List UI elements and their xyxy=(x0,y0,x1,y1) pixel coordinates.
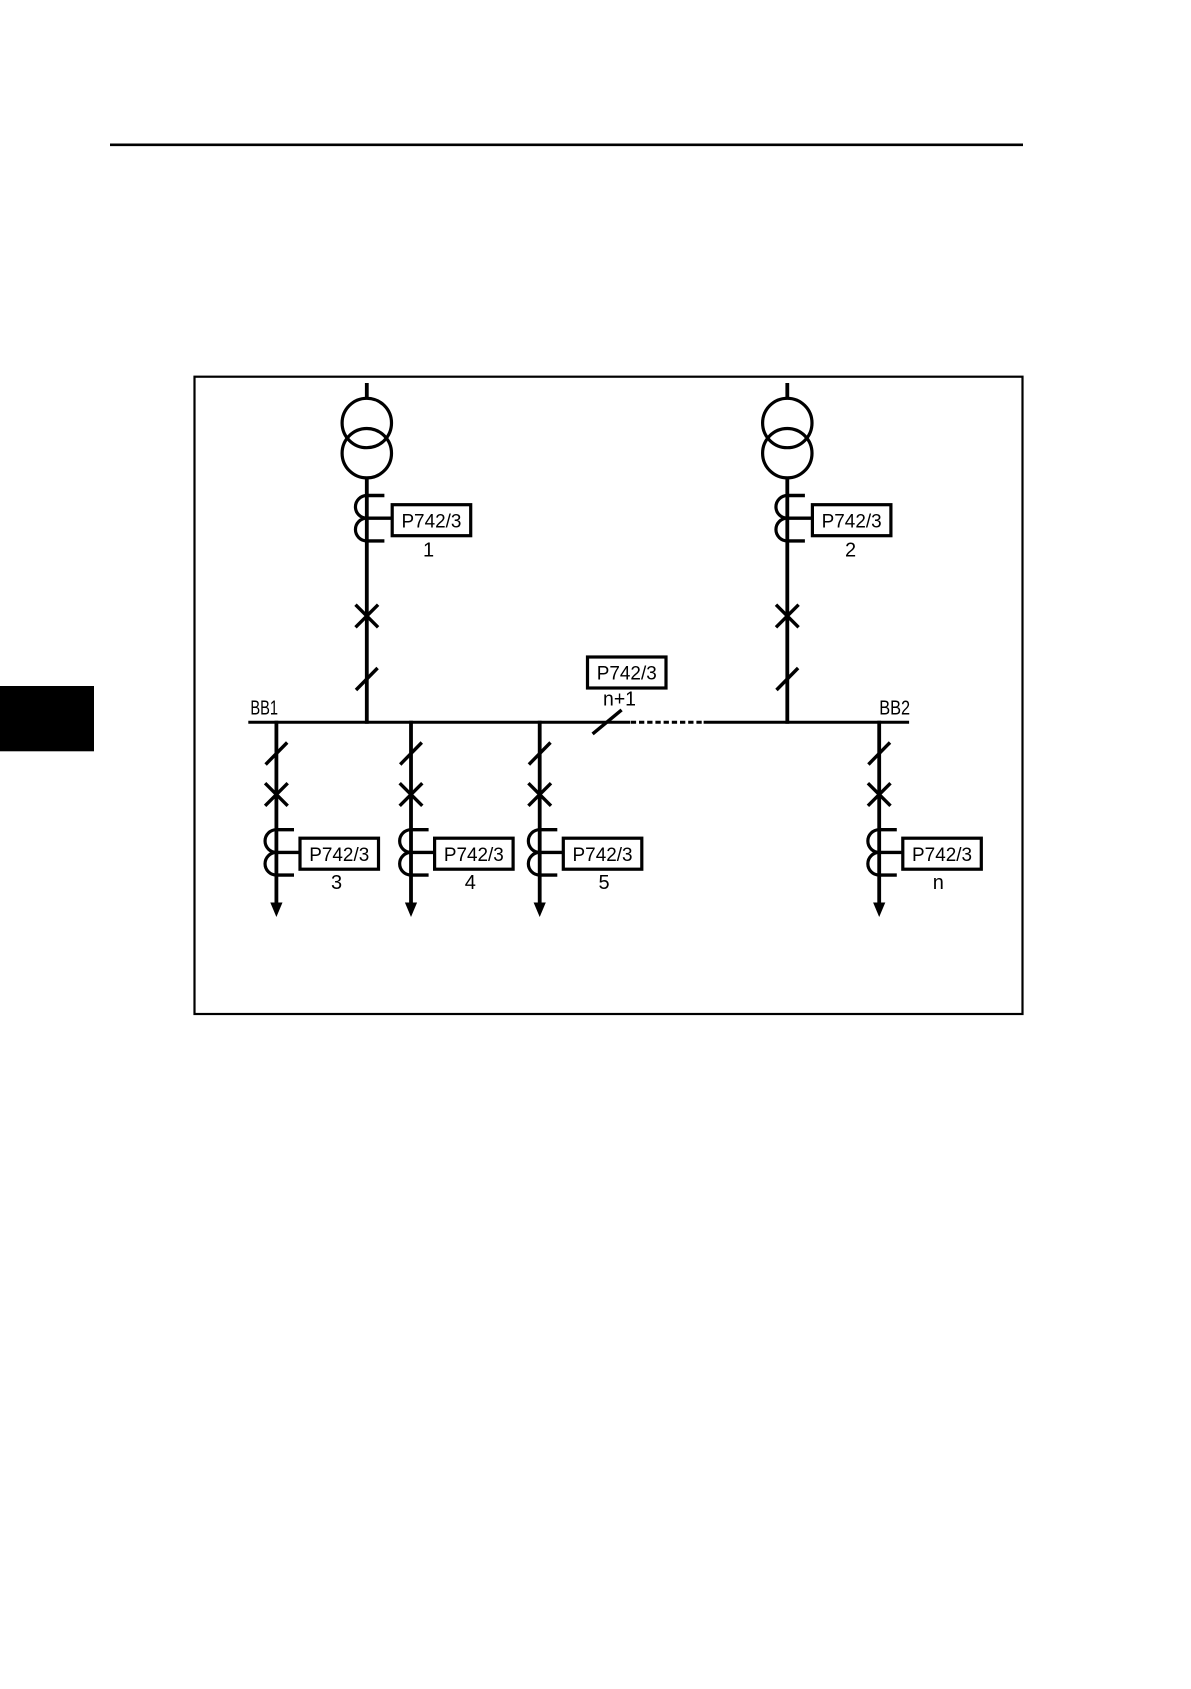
disconnector feeder 5 (slash) xyxy=(529,743,551,765)
CT feeder 3 top tick xyxy=(276,828,294,831)
disconnector feeder 4 (slash) xyxy=(400,743,422,765)
circuit breaker incomer 1 (X) xyxy=(356,605,379,628)
feeder 3 wire xyxy=(274,721,278,905)
circuit breaker feeder n (X) xyxy=(868,783,891,806)
incomer 2 supply stub wire xyxy=(785,383,789,400)
CT incomer 1 bottom tick xyxy=(367,539,385,542)
CT incomer 2 top tick xyxy=(787,494,805,497)
disconnector bus section (slash) xyxy=(593,710,622,734)
feeder 4 wire xyxy=(409,721,413,905)
svg-text:BB2: BB2 xyxy=(879,698,910,720)
svg-text:n: n xyxy=(933,872,944,894)
CT incomer 2 arcs xyxy=(776,496,787,541)
svg-text:P742/3: P742/3 xyxy=(573,845,633,866)
relay box feeder Un xyxy=(903,838,982,869)
disconnector feeder n (slash) xyxy=(868,743,890,765)
feeder 4 load arrow xyxy=(405,903,417,918)
svg-text:BB1: BB1 xyxy=(250,698,278,720)
incomer 2 feeder wire xyxy=(785,478,789,724)
incomer 1 feeder wire xyxy=(365,478,369,724)
circuit breaker feeder 3 (X) xyxy=(265,783,288,806)
relay box feeder U3 xyxy=(300,838,379,869)
svg-text:1: 1 xyxy=(423,539,434,561)
svg-text:P742/3: P742/3 xyxy=(822,511,882,532)
feeder n wire xyxy=(877,721,881,905)
svg-text:5: 5 xyxy=(598,872,609,894)
busbar BB1 segment xyxy=(248,721,630,724)
CT feeder n secondary lead to relay xyxy=(879,851,905,854)
CT feeder 5 bottom tick xyxy=(540,873,558,876)
svg-text:P742/3: P742/3 xyxy=(912,845,972,866)
CT incomer 2 secondary lead to relay xyxy=(787,517,814,520)
circuit breaker feeder 5 (X) xyxy=(528,783,551,806)
CT incomer 2 bottom tick xyxy=(787,539,805,542)
circuit breaker feeder 4 (X) xyxy=(400,783,423,806)
CT feeder 5 top tick xyxy=(540,828,558,831)
busbar BB2 segment xyxy=(704,721,910,724)
relay box U1 xyxy=(392,505,471,536)
feeder 5 load arrow xyxy=(534,903,546,918)
svg-text:P742/3: P742/3 xyxy=(597,664,657,685)
svg-text:P742/3: P742/3 xyxy=(401,511,461,532)
incomer 1 supply stub wire xyxy=(365,383,369,400)
busbar dashed section xyxy=(631,721,704,724)
feeder 3 load arrow xyxy=(270,903,282,918)
circuit breaker incomer 2 (X) xyxy=(776,605,799,628)
CT incomer 1 arcs xyxy=(355,496,366,541)
relay box feeder U4 xyxy=(435,838,513,869)
CT incomer 1 top tick xyxy=(367,494,385,497)
transformer T2 upper winding xyxy=(763,398,812,447)
CT feeder n bottom tick xyxy=(879,873,897,876)
CT feeder n arcs xyxy=(868,830,879,875)
CT feeder 4 arcs xyxy=(400,830,411,875)
header rule xyxy=(110,144,1023,147)
svg-text:n+1: n+1 xyxy=(603,689,636,711)
svg-text:3: 3 xyxy=(331,872,342,894)
CT feeder 4 top tick xyxy=(411,828,429,831)
transformer T1 lower winding xyxy=(342,429,391,478)
disconnector feeder 3 (slash) xyxy=(266,743,288,765)
transformer T1 upper winding xyxy=(342,398,391,447)
disconnector incomer 2 (slash) xyxy=(777,668,799,690)
disconnector incomer 1 (slash) xyxy=(356,668,378,690)
relay box U2 xyxy=(812,505,891,536)
chapter thumb tab (left margin) xyxy=(0,686,94,751)
figure frame xyxy=(195,377,1023,1014)
CT feeder 3 secondary lead to relay xyxy=(276,851,302,854)
feeder n load arrow xyxy=(873,903,885,918)
CT feeder 4 bottom tick xyxy=(411,873,429,876)
svg-text:4: 4 xyxy=(465,872,476,894)
CT feeder 4 secondary lead to relay xyxy=(411,851,437,854)
CT feeder 3 arcs xyxy=(265,830,276,875)
svg-text:P742/3: P742/3 xyxy=(309,845,369,866)
transformer T2 lower winding xyxy=(763,429,812,478)
CT incomer 1 secondary lead to relay xyxy=(367,517,394,520)
relay box bus-section U(n+1) xyxy=(588,657,667,688)
CT feeder n top tick xyxy=(879,828,897,831)
CT feeder 3 bottom tick xyxy=(276,873,294,876)
relay box feeder U5 xyxy=(563,838,642,869)
svg-text:P742/3: P742/3 xyxy=(444,845,504,866)
CT feeder 5 arcs xyxy=(528,830,539,875)
feeder 5 wire xyxy=(538,721,542,905)
svg-text:2: 2 xyxy=(845,539,856,561)
CT feeder 5 secondary lead to relay xyxy=(540,851,566,854)
